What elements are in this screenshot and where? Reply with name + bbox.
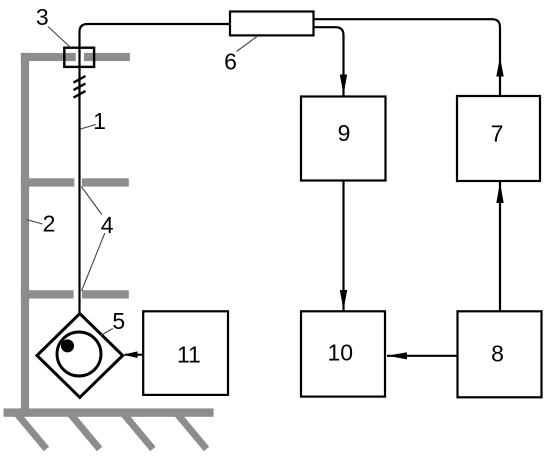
- stand top arm: [21, 53, 76, 61]
- stand post 2: [21, 53, 29, 409]
- arrow into box 7: [496, 182, 503, 203]
- svg-text:4: 4: [101, 212, 114, 238]
- svg-text:9: 9: [338, 120, 351, 146]
- wire 8 to 7: [499, 182, 501, 312]
- leader for label 1: [81, 125, 97, 130]
- wire 9 to 10: [342, 181, 344, 312]
- svg-text:11: 11: [177, 341, 201, 367]
- arrow up on wire above box 7: [496, 57, 503, 77]
- svg-text:2: 2: [43, 211, 56, 237]
- leader for label 4 lower: [82, 233, 105, 291]
- flexibility marks on wire 1: [74, 76, 86, 98]
- suspension box 3: [64, 48, 94, 67]
- weight body 5 (diamond): [37, 314, 123, 398]
- stand bottom arm: [21, 290, 74, 298]
- arrow into weight 5: [123, 351, 138, 358]
- wire 11 to weight 5: [125, 354, 143, 356]
- svg-text:6: 6: [224, 49, 237, 75]
- leader for label 4 upper: [81, 187, 102, 215]
- inline device 6: [230, 12, 314, 36]
- floor: [4, 408, 214, 416]
- wire 1: [80, 24, 231, 314]
- wire 6 to 7 (top run): [314, 19, 501, 95]
- wire 6 to 9: [314, 27, 344, 95]
- arrow into box 10 right side: [387, 352, 407, 359]
- svg-text:5: 5: [112, 308, 125, 334]
- leader for label 5: [101, 329, 113, 336]
- wire 8 to 10: [387, 355, 458, 357]
- svg-text:1: 1: [93, 108, 106, 134]
- roller circle inside 5: [57, 332, 101, 376]
- box 10: [301, 311, 385, 396]
- highlight dot on circle: [61, 339, 74, 352]
- box 11: [143, 311, 228, 395]
- svg-text:7: 7: [491, 121, 504, 147]
- floor hatching: [18, 415, 207, 450]
- arrow into box 10: [340, 290, 347, 310]
- svg-text:8: 8: [491, 341, 504, 367]
- leader for label 3: [48, 27, 71, 48]
- stand middle arm: [21, 178, 75, 186]
- leader for label 6: [237, 37, 258, 52]
- box 8: [458, 311, 542, 397]
- box 7: [457, 96, 540, 181]
- leader for label 2: [27, 220, 43, 225]
- arrow into box 9: [340, 75, 347, 95]
- box 9: [301, 97, 386, 181]
- svg-text:10: 10: [328, 340, 354, 366]
- svg-text:3: 3: [36, 4, 49, 30]
